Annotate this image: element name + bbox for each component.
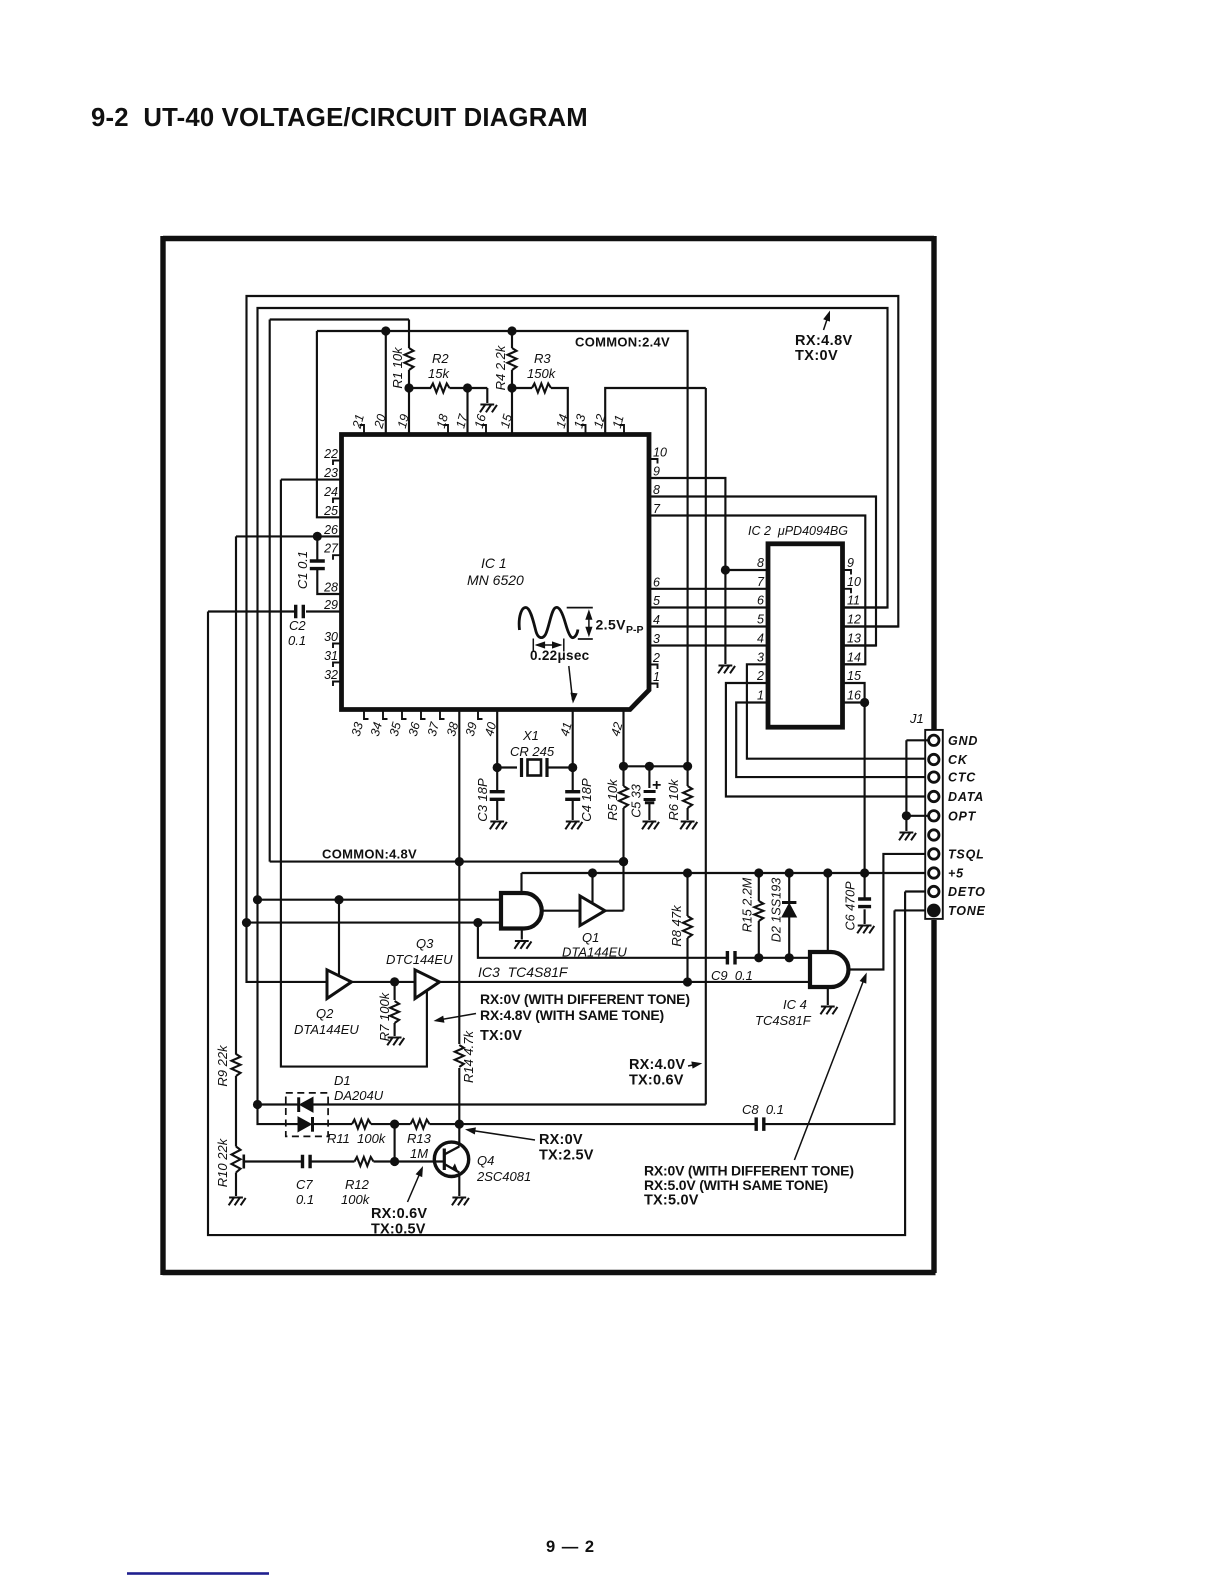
ground symbol below IC2 pin 8 line bbox=[718, 666, 735, 674]
wire IC1 pin 38 down (R14 top) bbox=[458, 710, 460, 1045]
svg-text:0.1: 0.1 bbox=[296, 1192, 314, 1207]
wire IC1 pin 41 down through X1 node to C4 bbox=[572, 710, 574, 792]
svg-text:C5 33: C5 33 bbox=[630, 784, 644, 818]
wire IC1 pin 8 to IC2 pin 13 bbox=[650, 497, 876, 646]
wire C5 to ground bbox=[648, 804, 650, 821]
junction +5 rail / C6 / IC2 pin16 node bbox=[860, 868, 869, 877]
svg-text:R7 100k: R7 100k bbox=[377, 991, 392, 1041]
svg-text:COMMON:2.4V: COMMON:2.4V bbox=[575, 335, 670, 350]
waveform sketch (2.5Vp-p clock) bbox=[519, 607, 578, 637]
svg-text:34: 34 bbox=[368, 721, 385, 738]
svg-text:25: 25 bbox=[323, 504, 338, 518]
IC1 top pin 18 stub bbox=[444, 425, 449, 435]
wire IC2 pin 3 to J1 CK bbox=[747, 664, 929, 758]
wire Q4 emitter to ground bbox=[458, 1173, 460, 1197]
svg-text:16: 16 bbox=[847, 689, 861, 703]
capacitor C2 0.1 bbox=[296, 605, 304, 619]
wire +5 rail to J1 +5 pin bbox=[522, 872, 930, 874]
junction R11/R13 node to R12 line bbox=[390, 1120, 399, 1129]
svg-text:1: 1 bbox=[757, 689, 764, 703]
IC1 bottom pin 35 stub bbox=[402, 710, 407, 720]
wire C8 to J1 TONE vertical bbox=[763, 910, 894, 1124]
IC1 bottom pin 34 stub bbox=[383, 710, 388, 720]
IC1 bottom pin 39 stub bbox=[478, 710, 483, 720]
svg-text:36: 36 bbox=[406, 721, 423, 738]
wire terminal to C7 bbox=[244, 1160, 303, 1162]
svg-text:33: 33 bbox=[349, 721, 366, 738]
IC1 right pin 10 stub bbox=[649, 459, 658, 464]
svg-text:5: 5 bbox=[653, 594, 660, 608]
svg-text:R1 10k: R1 10k bbox=[390, 346, 405, 389]
wire COMMON 2.4V rail (to R5/R6 bias node) bbox=[317, 331, 688, 766]
wire X1 left lead bbox=[497, 766, 517, 768]
arrow line to pin12 net vertical bbox=[688, 1064, 698, 1066]
wire GND pin down to ground bbox=[905, 740, 907, 831]
wire R7 to ground bbox=[394, 1023, 396, 1036]
junction R4 bottom / R3 bbox=[507, 383, 516, 392]
svg-text:IC 2 μPD4094BG: IC 2 μPD4094BG bbox=[748, 524, 848, 538]
diode D1b (points right) bbox=[298, 1117, 311, 1132]
svg-text:R4 2.2k: R4 2.2k bbox=[493, 344, 508, 390]
capacitor C8 0.1 bbox=[756, 1117, 764, 1131]
svg-text:24: 24 bbox=[323, 485, 338, 499]
resistor R1 10k bbox=[405, 348, 414, 370]
svg-text:Q4: Q4 bbox=[477, 1153, 494, 1168]
svg-text:RX:4.8V (WITH SAME TONE): RX:4.8V (WITH SAME TONE) bbox=[480, 1007, 664, 1023]
junction R1 bottom / R2 bbox=[404, 383, 413, 392]
wire R6 to ground bbox=[687, 808, 689, 820]
svg-text:6: 6 bbox=[653, 575, 660, 589]
transistor Q3 DTC144EU (triangle) bbox=[415, 970, 440, 999]
ground symbol below R10 bbox=[229, 1198, 246, 1206]
J1 pin DATA circle bbox=[929, 791, 939, 801]
wire R4 junction to R3 bbox=[512, 387, 532, 389]
wire IC1 pin 12 up and right bbox=[605, 388, 706, 435]
svg-text:9-2 UT-40 VOLTAGE/CIRCUIT DIA: 9-2 UT-40 VOLTAGE/CIRCUIT DIAGRAM bbox=[91, 104, 588, 132]
svg-text:0.22μsec: 0.22μsec bbox=[530, 648, 590, 663]
svg-text:DTC144EU: DTC144EU bbox=[386, 952, 453, 967]
svg-text:R9 22k: R9 22k bbox=[215, 1044, 230, 1087]
waveform 2.5Vp-p dimension line bbox=[588, 612, 590, 635]
wire C7 to R12 bbox=[310, 1160, 355, 1162]
wire IC3 ground stub bbox=[521, 929, 523, 940]
wire IC1 pin 40 down to X1 node bbox=[496, 710, 498, 768]
ground symbol below IC3 bbox=[514, 941, 531, 949]
resistor R3 150k bbox=[532, 384, 551, 393]
wire R15 bottom lead bbox=[758, 921, 760, 958]
wire IC1 pin 4 to IC2 pin 5 bbox=[650, 625, 768, 627]
junction input-2 / C9 loop bbox=[473, 918, 482, 927]
svg-text:R3: R3 bbox=[534, 351, 551, 366]
svg-text:C3 18P: C3 18P bbox=[475, 778, 490, 822]
wire R3 to IC1 pin 14 bbox=[551, 388, 568, 435]
wire pin12 net long vertical (to D1) bbox=[705, 388, 707, 1105]
arrowhead at pin12 vertical bbox=[691, 1060, 703, 1069]
svg-text:R15 2.2M: R15 2.2M bbox=[741, 877, 755, 932]
wire into IC2 pin 8 bbox=[725, 569, 768, 571]
junction +5 rail / R8 bbox=[683, 868, 692, 877]
wire R12 to Q4 base bbox=[374, 1160, 444, 1162]
wire IC4 power stub bbox=[827, 873, 829, 952]
svg-text:R10 22k: R10 22k bbox=[215, 1137, 230, 1187]
arrowhead at Q4 collector node bbox=[464, 1126, 475, 1135]
IC1 top pin 16 stub bbox=[482, 425, 487, 435]
IC1 top pin 11 stub bbox=[620, 425, 625, 435]
wire IC1 pin 42 down to R5 bbox=[622, 710, 624, 787]
svg-text:Q1: Q1 bbox=[582, 930, 599, 945]
svg-text:100k: 100k bbox=[341, 1192, 371, 1207]
wire C3 top lead bbox=[496, 768, 498, 792]
svg-text:J1: J1 bbox=[909, 711, 924, 726]
ground symbol below R6 bbox=[680, 822, 697, 830]
wire IC2 pin 16 out bbox=[843, 701, 865, 703]
resistor R2 15k bbox=[431, 384, 450, 393]
wire R7 top lead bbox=[394, 982, 396, 1000]
junction Q2-Q3 line / R7 bbox=[390, 977, 399, 986]
resistor R7 100k bbox=[390, 1001, 399, 1023]
waveform top reference line bbox=[567, 607, 593, 609]
wire R4 bottom to IC1 pin 15 bbox=[511, 370, 513, 435]
wire Q4 collector node to C8 bbox=[459, 1123, 757, 1125]
wire loop net A lower corner into Q2 input bbox=[247, 923, 328, 982]
junction R5 line / COMMON 4.8V rail bbox=[619, 857, 628, 866]
wire R6 top lead bbox=[687, 766, 689, 786]
junction rail / R4 bbox=[507, 326, 516, 335]
svg-text:R14 4.7k: R14 4.7k bbox=[461, 1029, 476, 1083]
junction +5 rail / D2 bbox=[785, 868, 794, 877]
svg-text:TX:0V: TX:0V bbox=[480, 1028, 522, 1044]
junction IC2 pin15/16 bbox=[860, 698, 869, 707]
junction loop B / D1 top row bbox=[253, 1100, 262, 1109]
wire D1 top row to pin12 net corner bbox=[313, 1103, 706, 1105]
svg-text:10: 10 bbox=[847, 575, 861, 589]
svg-text:R6 10k: R6 10k bbox=[666, 778, 681, 821]
IC1 left pin 22 stub bbox=[333, 461, 342, 466]
svg-text:R13: R13 bbox=[407, 1131, 432, 1146]
wire IC3 input 1 line bbox=[258, 899, 502, 901]
svg-text:DETO: DETO bbox=[948, 885, 986, 899]
junction pin 41 / X1 / C4 bbox=[568, 763, 577, 772]
junction +5 rail / IC4 power bbox=[823, 868, 832, 877]
arrow line to Q4 collector node bbox=[469, 1130, 535, 1140]
wire Q4 collector up bbox=[458, 1124, 460, 1146]
wire R5 bottom through COMMON rail to Q1 output corner bbox=[622, 808, 624, 911]
wire Q1 output to pin42 net corner bbox=[605, 910, 624, 912]
svg-text:TSQL: TSQL bbox=[948, 847, 985, 861]
svg-text:Q3: Q3 bbox=[416, 936, 434, 951]
wire D2 cathode lead bbox=[788, 873, 790, 902]
svg-text:2SC4081: 2SC4081 bbox=[476, 1169, 531, 1184]
J1 pin CTC circle bbox=[929, 772, 939, 782]
wire IC3 output to Q1 bbox=[542, 910, 580, 912]
svg-text:DA204U: DA204U bbox=[334, 1088, 384, 1103]
junction loop A / IC3 input-2 line bbox=[242, 918, 251, 927]
IC1 bottom pin 36 stub bbox=[421, 710, 426, 720]
IC1 left pin 27 stub bbox=[333, 555, 342, 560]
junction pin 40 / X1 / C3 bbox=[493, 763, 502, 772]
svg-text:11: 11 bbox=[847, 594, 860, 608]
op-amp/gate IC4 TC4S81F (AND gate) bbox=[810, 952, 849, 987]
wire R10 to ground bbox=[235, 1173, 237, 1197]
wire IC3 power stub bbox=[520, 873, 522, 893]
junction bias node / R6 bbox=[683, 762, 692, 771]
IC1 left pin 31 stub bbox=[333, 663, 342, 668]
wire loop B corner to D1 bottom row bbox=[258, 1105, 299, 1125]
svg-text:15k: 15k bbox=[428, 366, 450, 381]
capacitor C3 18P bbox=[490, 792, 505, 800]
diode D2 1SS193 bbox=[782, 901, 796, 904]
svg-text:1M: 1M bbox=[410, 1146, 428, 1161]
svg-text:CR 245: CR 245 bbox=[510, 744, 555, 759]
ground symbol below C6 bbox=[857, 926, 874, 934]
svg-text:IC3 TC4S81F: IC3 TC4S81F bbox=[478, 964, 569, 980]
svg-text:9 — 2: 9 — 2 bbox=[546, 1538, 595, 1556]
J1 pin +5 circle bbox=[929, 868, 939, 878]
wire IC2 pin 11 out bbox=[843, 606, 887, 608]
wire R14 bottom to Q4 collector node bbox=[458, 1068, 460, 1124]
wire X1 right lead bbox=[547, 766, 573, 768]
ground symbol for J1 GND/OPT bbox=[899, 833, 916, 841]
wire loop net A: IC2 pin 12 around top to IC3 input B bbox=[247, 296, 899, 923]
C7 line left terminal bbox=[243, 1155, 246, 1169]
svg-text:1: 1 bbox=[653, 670, 660, 684]
svg-text:23: 23 bbox=[323, 466, 338, 480]
transistor Q4 2SC4081 (NPN) bbox=[434, 1142, 468, 1176]
arrowhead at loop B top wire bbox=[823, 309, 833, 321]
svg-text:+5: +5 bbox=[948, 867, 964, 881]
svg-text:2.5V: 2.5V bbox=[596, 617, 627, 633]
svg-text:2: 2 bbox=[756, 669, 764, 683]
wire D1 top row left segment bbox=[258, 1103, 298, 1105]
wire rail to R4 top bbox=[511, 331, 513, 348]
dimension arrowhead left bbox=[535, 641, 546, 648]
wire pin23 vertical down and around to Q3 emitter bbox=[281, 480, 427, 1067]
J1 pin GND circle bbox=[929, 735, 939, 745]
wire IC1 pin 9 to IC2 pin 8 and ground bbox=[650, 478, 725, 664]
capacitor C1 0.1 bbox=[310, 561, 325, 569]
wire R15 top lead bbox=[758, 873, 760, 901]
junction Q4 collector node bbox=[455, 1120, 464, 1129]
svg-text:C9 0.1: C9 0.1 bbox=[711, 968, 753, 983]
junction loop B / IC3 input-1 line bbox=[253, 895, 262, 904]
wire COMMON 4.8V left vertical bbox=[269, 320, 271, 862]
wire loop B continues down to D1 top row bbox=[256, 900, 258, 1105]
svg-text:7: 7 bbox=[653, 502, 661, 516]
svg-text:P-P: P-P bbox=[626, 624, 644, 636]
wire IC2 pin 1 to J1 CTC bbox=[736, 703, 929, 778]
svg-text:+: + bbox=[652, 777, 661, 794]
svg-text:GND: GND bbox=[948, 734, 978, 748]
svg-text:C8 0.1: C8 0.1 bbox=[742, 1102, 784, 1117]
IC1 right pin 1 stub bbox=[649, 684, 658, 689]
wire IC2 pin 13 out bbox=[843, 644, 877, 646]
svg-text:R2: R2 bbox=[432, 351, 449, 366]
svg-text:8: 8 bbox=[653, 483, 660, 497]
svg-text:28: 28 bbox=[323, 581, 338, 595]
arrow line to Q4 base wire bbox=[408, 1170, 422, 1203]
arrowhead at IC4 output wire bbox=[860, 971, 870, 983]
svg-text:TX:0.6V: TX:0.6V bbox=[629, 1073, 684, 1089]
capacitor C7 0.1 bbox=[303, 1155, 311, 1169]
wire R1 top lead bbox=[408, 320, 410, 349]
junction +5 rail / R15 bbox=[754, 868, 763, 877]
crystal X1 CR245 bbox=[522, 758, 548, 777]
wire R9 to R10 bbox=[235, 1076, 237, 1147]
wire IC3 input 2 line bbox=[246, 922, 501, 924]
svg-text:6: 6 bbox=[757, 594, 764, 608]
arrow line to loop B top bbox=[824, 314, 830, 331]
diode D1a (points left) bbox=[297, 1097, 300, 1112]
diode array D1 DA204U dashed box bbox=[286, 1093, 328, 1137]
resistor R11 100k bbox=[352, 1120, 371, 1129]
svg-text:C6 470P: C6 470P bbox=[844, 881, 858, 931]
wire C5 top lead bbox=[648, 766, 650, 788]
wire R11 to R13 bbox=[371, 1123, 411, 1125]
wire D1 bottom row to R11 bbox=[313, 1123, 353, 1125]
wire Q2 output to Q3 input bbox=[352, 981, 416, 983]
wire C6 to ground bbox=[864, 909, 866, 924]
svg-text:4: 4 bbox=[757, 632, 764, 646]
wire R2 to pin17 junction and ground stub bbox=[450, 387, 488, 389]
svg-text:IC 1: IC 1 bbox=[481, 555, 507, 571]
wire DETO net big loop (left-bottom-right) bbox=[208, 612, 905, 1236]
ground symbol at R2 line bbox=[480, 405, 497, 413]
capacitor C9 0.1 bbox=[727, 951, 735, 965]
svg-text:10: 10 bbox=[653, 446, 667, 460]
wire IC2 pin16 node down to +5 rail bbox=[864, 703, 866, 874]
J1 pin TONE circle bbox=[927, 904, 941, 918]
wire D2 anode to C9 line bbox=[788, 917, 790, 958]
resistor R14 4.7k bbox=[455, 1045, 464, 1067]
ground symbol below IC4 bbox=[820, 1007, 837, 1015]
svg-text:D1: D1 bbox=[334, 1073, 351, 1088]
svg-text:R11 100k: R11 100k bbox=[327, 1131, 387, 1146]
arrowhead at pin 41 bbox=[569, 693, 577, 704]
wire R8 bottom lead bbox=[686, 938, 688, 982]
svg-text:27: 27 bbox=[323, 542, 339, 556]
junction R8 / IC4 input line bbox=[683, 977, 692, 986]
svg-text:RX:0V: RX:0V bbox=[539, 1132, 583, 1148]
J1 pin unlabeled circle bbox=[929, 830, 939, 840]
svg-text:7: 7 bbox=[757, 575, 765, 589]
ground symbol below C3 bbox=[490, 822, 507, 830]
resistor R5 10k bbox=[619, 786, 628, 808]
junction D2 / C9 line bbox=[785, 953, 794, 962]
wire ground stub near pin 16 bbox=[486, 388, 488, 403]
J1 pin CK circle bbox=[929, 754, 939, 764]
svg-text:TX:0.5V: TX:0.5V bbox=[371, 1222, 426, 1238]
wire COMMON 4.8V rail lower segment bbox=[270, 861, 624, 863]
IC1 top pin 21 stub bbox=[360, 425, 365, 435]
wire IC2 pin 14 out bbox=[843, 663, 866, 665]
wire Q2 bias from input-1 line bbox=[338, 900, 340, 977]
svg-text:C7: C7 bbox=[296, 1177, 313, 1192]
svg-text:RX:5.0V (WITH SAME TONE): RX:5.0V (WITH SAME TONE) bbox=[644, 1177, 828, 1193]
svg-text:R5 10k: R5 10k bbox=[605, 778, 620, 821]
svg-text:CK: CK bbox=[948, 753, 968, 767]
wire rail to IC1 pin 20 bbox=[385, 331, 387, 435]
wire C3 to ground bbox=[496, 800, 498, 820]
wire Q3 output to IC4 input B bbox=[440, 981, 811, 983]
svg-text:X1: X1 bbox=[522, 728, 539, 743]
J1 pin TSQL circle bbox=[929, 849, 939, 859]
wire C2 to IC1 pin 29 bbox=[306, 610, 342, 612]
wire R1 bottom to IC1 pin 19 bbox=[408, 370, 410, 435]
svg-text:RX:4.8V: RX:4.8V bbox=[795, 333, 853, 349]
svg-text:8: 8 bbox=[757, 556, 764, 570]
wire junction down to IC1 pin 17 bbox=[466, 388, 468, 435]
resistor R6 10k bbox=[683, 786, 692, 808]
J1 pin DETO circle bbox=[929, 886, 939, 896]
capacitor C6 470P bbox=[858, 899, 871, 907]
wire C9 right plate to IC4 input A bbox=[735, 957, 810, 959]
transistor Q2 DTA144EU (triangle) bbox=[327, 970, 352, 999]
arrowhead at Q3 emitter wire bbox=[433, 1016, 445, 1025]
wire C4 to ground bbox=[572, 800, 574, 820]
svg-text:4: 4 bbox=[653, 613, 660, 627]
svg-text:DTA144EU: DTA144EU bbox=[294, 1022, 359, 1037]
waveform trough reference stubs bbox=[533, 639, 564, 652]
resistor R13 1M bbox=[411, 1120, 430, 1129]
svg-text:13: 13 bbox=[847, 632, 861, 646]
svg-text:0.1: 0.1 bbox=[288, 633, 306, 648]
svg-text:9: 9 bbox=[847, 556, 854, 570]
svg-text:15: 15 bbox=[847, 669, 861, 683]
wire IC2 pin 15 to pin 16 node bbox=[843, 683, 865, 703]
wire IC1 pin 5 to IC2 pin 6 bbox=[650, 606, 768, 608]
waveform bottom reference line bbox=[578, 638, 593, 640]
capacitor C4 18P bbox=[565, 792, 580, 800]
transistor Q1 DTA144EU (buffer triangle) bbox=[580, 896, 605, 926]
junction pin38 line / COMMON 4.8V rail bbox=[455, 857, 464, 866]
junction at IC2 pin 8 bbox=[721, 565, 730, 574]
waveform 0.22usec dimension line bbox=[537, 644, 561, 646]
wire IC1 pin 3 to IC2 pin 4 bbox=[650, 644, 768, 646]
junction R2 line / IC1 pin 17 wire bbox=[463, 383, 472, 392]
wire R8 top lead bbox=[686, 873, 688, 916]
connector J1 body bbox=[925, 730, 943, 919]
junction +5 rail / Q1 bias bbox=[588, 868, 597, 877]
arrowhead at Q4 base wire bbox=[416, 1165, 427, 1177]
wire J1 OPT pin lead bbox=[906, 815, 929, 817]
svg-text:5: 5 bbox=[757, 613, 764, 627]
IC1 right pin 2 stub bbox=[649, 665, 658, 670]
IC1 left pin 24 stub bbox=[333, 499, 342, 504]
arrow line to Q3 emitter wire bbox=[437, 1014, 476, 1021]
ground symbol below C5 bbox=[642, 822, 659, 830]
IC1 top pin 13 stub bbox=[581, 425, 586, 435]
wire DETO pin connection bbox=[905, 890, 929, 892]
wire pin 26 net down to R9 bbox=[235, 536, 237, 1054]
svg-text:3: 3 bbox=[757, 650, 764, 664]
IC1 bottom pin 37 stub bbox=[440, 710, 445, 720]
svg-text:32: 32 bbox=[324, 668, 338, 682]
wire to TONE pin bbox=[895, 909, 930, 911]
dimension arrowhead down bbox=[585, 627, 592, 638]
svg-text:150k: 150k bbox=[527, 366, 557, 381]
junction COMMON rail end at R5 line bbox=[619, 857, 628, 866]
ground symbol below C4 bbox=[565, 822, 582, 830]
wire J1 GND pin lead bbox=[906, 739, 929, 741]
wire IC1 pin 23 line bbox=[281, 479, 342, 481]
ground symbol below Q4 bbox=[452, 1198, 469, 1206]
junction OPT / GND line bbox=[902, 811, 911, 820]
svg-text:31: 31 bbox=[324, 649, 338, 663]
svg-text:29: 29 bbox=[323, 598, 338, 612]
wire C6 top lead bbox=[864, 873, 866, 899]
J1 pin OPT circle bbox=[929, 811, 939, 821]
IC1 left pin 32 stub bbox=[333, 682, 342, 687]
